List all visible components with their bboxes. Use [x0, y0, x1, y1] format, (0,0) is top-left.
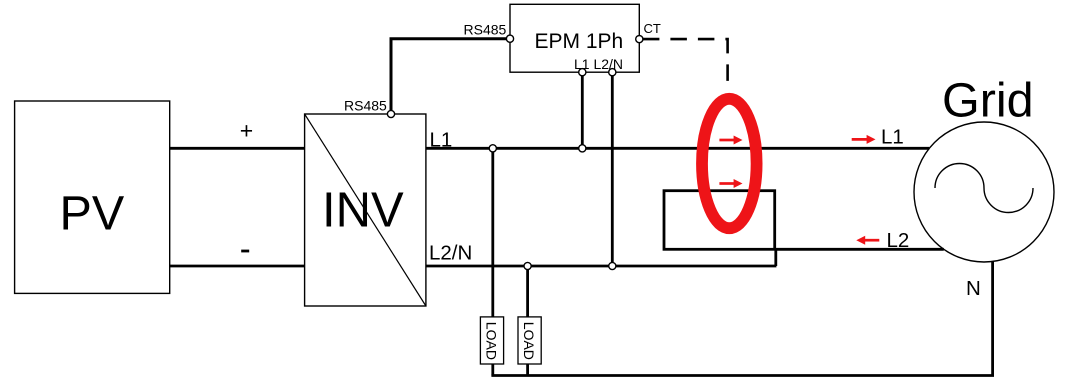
terminal L2/N on EPM — [609, 69, 616, 76]
svg-text:INV: INV — [322, 183, 404, 237]
terminal CT on EPM — [636, 36, 643, 43]
red arrow in CT on loop — [719, 179, 742, 188]
EPM 1Ph box — [510, 4, 639, 72]
svg-text:EPM 1Ph: EPM 1Ph — [535, 30, 624, 53]
junction on L1 at EPM L1 — [579, 145, 586, 152]
wire CT dashed — [643, 39, 728, 90]
svg-text:L1: L1 — [430, 129, 453, 152]
svg-text:RS485: RS485 — [344, 97, 387, 113]
inverter INV box — [305, 114, 426, 306]
svg-text:CT: CT — [644, 21, 661, 36]
LOAD box 1 — [480, 317, 503, 364]
junction on L1 at LOAD1 — [489, 145, 496, 152]
LOAD box 2 — [518, 317, 541, 364]
svg-text:Grid: Grid — [942, 73, 1034, 127]
label - — [241, 250, 249, 253]
Grid sine symbol — [935, 163, 1033, 212]
svg-text:+: + — [240, 118, 253, 144]
terminal RS485 on EPM — [506, 35, 513, 42]
svg-text:LOAD: LOAD — [484, 322, 500, 360]
terminal L1 on EPM — [579, 69, 586, 76]
wire EPM L2/N drop — [611, 76, 614, 266]
junction on L2/N at EPM L2/N — [609, 262, 616, 269]
wire EPM L1 drop — [581, 76, 584, 149]
svg-text:L1: L1 — [881, 126, 904, 149]
svg-text:L2/N: L2/N — [429, 242, 472, 265]
wire N drop from Grid — [991, 262, 994, 376]
CT red ellipse — [702, 99, 757, 228]
PV box — [15, 101, 170, 293]
wire LOAD2 drop — [526, 266, 529, 376]
svg-text:N: N — [966, 277, 981, 300]
svg-text:L2: L2 — [887, 229, 910, 252]
wire N bottom return — [491, 374, 994, 377]
wire loop to L2/N — [774, 249, 777, 266]
wire L2/N (INV to loop) — [426, 265, 777, 268]
svg-text:RS485: RS485 — [464, 22, 507, 38]
CT loop rectangle — [664, 191, 775, 250]
wire + (PV to INV) — [170, 147, 305, 150]
Grid circle — [914, 122, 1054, 262]
red arrow L2 at Grid — [856, 236, 879, 245]
red arrow L1 at Grid — [852, 135, 876, 144]
wire - (PV to INV) — [170, 265, 305, 268]
svg-text:LOAD: LOAD — [521, 322, 537, 360]
wire RS485 (INV to EPM) — [391, 39, 510, 113]
wire L1 (INV to Grid) — [426, 147, 929, 150]
terminal RS485 on INV — [387, 110, 394, 117]
wire L2 (loop to Grid) — [775, 248, 944, 251]
wire LOAD1 drop — [491, 148, 494, 375]
junction on L2/N at LOAD2 — [524, 262, 531, 269]
red arrow in CT on L1 — [719, 136, 742, 145]
svg-text:PV: PV — [60, 186, 125, 240]
